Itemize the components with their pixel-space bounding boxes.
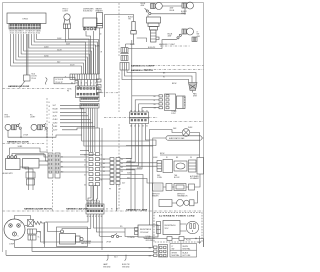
svg-text:41: 41 bbox=[84, 164, 86, 166]
junction dots rc lamps bbox=[20, 137, 21, 138]
dispenser label bbox=[83, 9, 94, 13]
rc lamp B label bbox=[30, 115, 36, 119]
svg-text:LIGHT: LIGHT bbox=[5, 117, 11, 119]
svg-text:HARNESS HCT LIGHT: HARNESS HCT LIGHT bbox=[131, 65, 155, 68]
bus verticals below J2 bbox=[82, 108, 153, 200]
inline lugs on ground wire bbox=[167, 237, 184, 241]
defrost capsule label box bbox=[166, 136, 202, 140]
svg-text:7W: 7W bbox=[128, 19, 131, 21]
svg-text:115V 60HZ: 115V 60HZ bbox=[140, 232, 148, 234]
svg-text:40: 40 bbox=[134, 110, 136, 112]
svg-text:34 40 41 33 35 36: 34 40 41 33 35 36 bbox=[86, 202, 99, 204]
svg-text:P: P bbox=[45, 130, 46, 132]
water heater cartridge bbox=[97, 13, 103, 28]
svg-text:33: 33 bbox=[142, 125, 144, 127]
wires auger connector to ladder R2 bbox=[60, 157, 89, 172]
svg-text:40W: 40W bbox=[141, 5, 145, 7]
svg-text:40: 40 bbox=[76, 83, 78, 85]
ladder R2 side labels bbox=[84, 154, 102, 186]
wires from mid connector down bbox=[126, 124, 156, 170]
svg-text:41-W: 41-W bbox=[137, 168, 141, 170]
pin wire code labels under J1 bbox=[10, 31, 42, 35]
freezer light bulb (top) bbox=[64, 14, 71, 29]
stubs bar to block bbox=[78, 80, 97, 87]
svg-text:EVAPORATOR FAN: EVAPORATOR FAN bbox=[169, 137, 185, 140]
connector column labels bbox=[154, 96, 157, 110]
svg-text:J9: J9 bbox=[119, 189, 121, 191]
svg-text:34: 34 bbox=[106, 209, 108, 211]
connector bar P1 (wide low) bbox=[70, 74, 99, 80]
water heater lead bbox=[99, 28, 101, 74]
wires from mid connector pins up to column bbox=[132, 96, 159, 112]
below ladder stubs bbox=[116, 185, 118, 212]
lamp2 side label bbox=[181, 11, 188, 15]
auger dual connector bbox=[48, 153, 60, 178]
svg-text:BULB-PK: BULB-PK bbox=[148, 47, 156, 49]
harness boundary HCT LIGHT (dash-dot right) bbox=[148, 65, 204, 67]
bulb 7W rod lamp bbox=[131, 22, 136, 43]
svg-text:40: 40 bbox=[121, 163, 123, 165]
evap fan motor bbox=[189, 83, 198, 93]
lamp3 side label bbox=[197, 32, 201, 38]
svg-text:33: 33 bbox=[85, 83, 87, 85]
connector stack P12 (right of dash line) bbox=[120, 48, 129, 71]
fan motor label bbox=[193, 93, 198, 98]
condenser fan label bbox=[81, 241, 92, 245]
svg-text:40-W: 40-W bbox=[53, 116, 57, 118]
P8 side label bbox=[67, 89, 73, 93]
below ladder labels bbox=[109, 189, 121, 191]
lamp1 label bbox=[141, 3, 146, 7]
svg-text:34: 34 bbox=[121, 159, 123, 161]
svg-text:35: 35 bbox=[84, 174, 86, 176]
svg-text:BK/W: BK/W bbox=[160, 153, 165, 155]
svg-text:LIGHT: LIGHT bbox=[63, 11, 69, 13]
harness boundary CONTROL (dash-dot right) bbox=[144, 69, 204, 71]
receptacle text bbox=[140, 228, 152, 234]
P8 pins row2 bbox=[77, 93, 98, 95]
start relay resistor zigzag bbox=[34, 221, 42, 224]
svg-text:GROUND: GROUND bbox=[122, 266, 130, 268]
svg-text:41-BU: 41-BU bbox=[53, 119, 59, 121]
svg-text:THE: THE bbox=[174, 175, 177, 177]
mid connector pins bbox=[131, 113, 146, 121]
svg-text:40: 40 bbox=[100, 34, 102, 36]
verticals below bottom connector bbox=[44, 214, 102, 250]
ground pigtail curl bbox=[46, 78, 48, 85]
wire code labels on fanout bbox=[44, 38, 76, 67]
svg-text:HARNESS LT LIGHT: HARNESS LT LIGHT bbox=[159, 43, 175, 46]
svg-text:DEFROST: DEFROST bbox=[152, 194, 160, 196]
svg-text:34-GY: 34-GY bbox=[53, 130, 59, 132]
small box pair above harness line bbox=[159, 199, 194, 206]
relay connector stack bbox=[28, 229, 37, 240]
legend connector bbox=[154, 245, 168, 258]
svg-text:CONDENSER: CONDENSER bbox=[81, 241, 92, 243]
connector stack under auger bbox=[26, 172, 35, 185]
compressor motor circle bbox=[4, 219, 25, 240]
lamp2 wiring bbox=[151, 6, 185, 14]
connector J1 strip under board bbox=[9, 24, 41, 30]
left wire-code label column bbox=[53, 105, 59, 132]
svg-text:33: 33 bbox=[142, 110, 144, 112]
svg-text:41: 41 bbox=[103, 167, 105, 169]
wire labels above heater row bbox=[153, 157, 192, 159]
svg-text:HARNESS CAB UNIT: HARNESS CAB UNIT bbox=[66, 208, 88, 211]
heater labels bbox=[157, 175, 200, 180]
cluster inline connector ladder bbox=[110, 158, 120, 185]
connector J1 pins row2 bbox=[10, 27, 40, 29]
condenser fan motor unit bbox=[60, 230, 84, 244]
svg-text:LP SW: LP SW bbox=[106, 242, 111, 244]
svg-text:BULB: BULB bbox=[170, 10, 175, 12]
rc lamp A assembly bbox=[5, 123, 21, 130]
door switch wiring bbox=[100, 228, 138, 237]
svg-text:44: 44 bbox=[38, 32, 40, 34]
bottom connector block (center) bbox=[86, 204, 104, 214]
defrost wires bbox=[150, 130, 204, 248]
svg-text:41: 41 bbox=[138, 110, 140, 112]
wire 34-Y drop bbox=[107, 255, 127, 260]
svg-text:MTR: MTR bbox=[193, 96, 198, 98]
junction dot ground bbox=[195, 238, 196, 239]
lamp housing stack bbox=[147, 17, 161, 42]
wires ladder R2 to cluster bbox=[100, 159, 111, 179]
connector block P8 (two pin rows) bbox=[76, 86, 100, 98]
harness boundary FZ DOOR (dash-dot y88.5 left) bbox=[3, 88, 67, 90]
wiring from box to plug bbox=[180, 224, 187, 231]
dispenser solenoid box bbox=[83, 18, 97, 31]
svg-text:SOLENOID: SOLENOID bbox=[83, 11, 93, 13]
center bus connector J2 lower bbox=[80, 104, 99, 109]
label row under bar bbox=[71, 83, 97, 85]
junction dots ground wires bbox=[107, 255, 108, 256]
defrost heater assembly bbox=[157, 158, 204, 175]
svg-text:RECEPTACLE: RECEPTACLE bbox=[165, 224, 177, 227]
svg-text:34: 34 bbox=[190, 157, 192, 159]
P8 pins row1 bbox=[77, 88, 98, 90]
defrost terminator row bbox=[153, 183, 195, 191]
lamp3 bulb 40W (mid right) bbox=[177, 28, 194, 39]
lamp3 connector bbox=[192, 37, 197, 42]
compressor terminal dots bbox=[10, 225, 19, 235]
door switch label bbox=[106, 242, 111, 244]
plug box lead + curl bbox=[75, 81, 80, 90]
svg-text:HOT LINE: HOT LINE bbox=[183, 255, 192, 257]
svg-text:GROUND: GROUND bbox=[103, 266, 111, 268]
svg-text:HARNESS CONTROL: HARNESS CONTROL bbox=[131, 69, 154, 72]
svg-text:GROUND: GROUND bbox=[146, 240, 154, 242]
svg-text:DEFROST: DEFROST bbox=[177, 194, 185, 196]
power plug bbox=[186, 221, 198, 233]
stack pigtails bbox=[29, 185, 34, 190]
FZ door plug label bbox=[32, 74, 38, 80]
svg-text:COMP: COMP bbox=[9, 244, 15, 246]
wire 34-BK top of auger area bbox=[10, 148, 49, 155]
svg-text:OL: OL bbox=[38, 237, 40, 239]
svg-text:P9: P9 bbox=[109, 189, 111, 191]
power cord box text bbox=[165, 224, 177, 230]
svg-text:LT: LT bbox=[197, 32, 199, 34]
svg-text:40-T: 40-T bbox=[122, 183, 125, 185]
harness boundary mid (dash-dot y117.5 center) bbox=[104, 118, 204, 122]
plug box text bbox=[56, 79, 64, 84]
svg-text:36: 36 bbox=[95, 83, 97, 85]
box pair wire bbox=[172, 191, 198, 203]
svg-text:34-RD: 34-RD bbox=[53, 123, 59, 125]
wires ladder R2 to bottom connector bbox=[88, 128, 102, 204]
svg-text:PLUG: PLUG bbox=[32, 78, 37, 80]
overload protector box bbox=[28, 220, 34, 227]
wires to FZ door connector bbox=[26, 34, 28, 75]
svg-text:AUGER MTR: AUGER MTR bbox=[3, 172, 14, 175]
svg-text:RECEPTACLE: RECEPTACLE bbox=[140, 228, 152, 231]
terminator wiring bbox=[163, 174, 200, 187]
power cord connector pins bbox=[157, 222, 161, 234]
vertical dashed harness line x119 top bbox=[118, 3, 120, 211]
fan-out wires from J1 to center bus bbox=[11, 34, 99, 74]
svg-text:HARNESS FZ LINER: HARNESS FZ LINER bbox=[126, 209, 148, 212]
wires leaving cluster right side down bbox=[120, 159, 157, 212]
compressor wiring bbox=[6, 216, 154, 256]
control board KP1B bbox=[7, 13, 46, 24]
svg-text:HARNESS AUGER MOTOR: HARNESS AUGER MOTOR bbox=[24, 208, 52, 211]
svg-text:CONT: CONT bbox=[171, 113, 176, 115]
svg-text:PLUG: PLUG bbox=[186, 240, 191, 242]
svg-text:BK W RD OR BU Y: BK W RD OR BU Y bbox=[86, 201, 101, 203]
svg-text:35: 35 bbox=[146, 110, 148, 112]
svg-text:34-T: 34-T bbox=[53, 105, 56, 107]
tiny plug symbols left edge bbox=[97, 79, 102, 93]
svg-text:FZ DOOR: FZ DOOR bbox=[56, 79, 64, 81]
wire labels along center verticals bbox=[95, 34, 103, 54]
harness boundary RC DOOR (dash-dot y143.5 left) bbox=[3, 143, 46, 145]
FZ door plug connector bbox=[20, 75, 31, 88]
compartment wiring loop bbox=[46, 222, 91, 232]
svg-text:J2: J2 bbox=[65, 77, 67, 79]
svg-text:DEF: DEF bbox=[173, 128, 176, 130]
svg-text:P8: P8 bbox=[67, 91, 69, 93]
svg-text:BK/W: BK/W bbox=[172, 83, 177, 85]
svg-text:LIGHT: LIGHT bbox=[30, 117, 36, 119]
svg-text:RD-BK: RD-BK bbox=[53, 109, 59, 111]
svg-text:BLOCK: BLOCK bbox=[174, 177, 180, 179]
alternate power cord dashed box bbox=[154, 213, 202, 243]
PTC relay label bbox=[38, 232, 42, 239]
svg-text:BULB R: BULB R bbox=[181, 11, 188, 13]
terminator labels bbox=[152, 194, 188, 198]
compressor compartment outline bbox=[57, 227, 88, 247]
svg-text:34: 34 bbox=[103, 159, 105, 161]
svg-text:41: 41 bbox=[121, 167, 123, 169]
letter column along left dashed line bbox=[45, 102, 51, 132]
cluster side labels bbox=[103, 159, 123, 173]
svg-text:33: 33 bbox=[121, 171, 123, 173]
defrost bimetal DEF bbox=[182, 129, 190, 137]
svg-text:NEUTRAL: NEUTRAL bbox=[183, 247, 191, 250]
short harness dash-dot y92 bbox=[96, 92, 119, 94]
svg-text:41: 41 bbox=[138, 125, 140, 127]
border frame bbox=[3, 3, 204, 253]
svg-text:40: 40 bbox=[134, 125, 136, 127]
lamp1 switch + bulb 40W (top) bbox=[145, 3, 163, 15]
bulb 7W label bbox=[128, 17, 133, 21]
svg-text:S: S bbox=[7, 223, 8, 225]
svg-text:ALTERNATE POWER CORD: ALTERNATE POWER CORD bbox=[159, 215, 195, 218]
freezer light leads bbox=[66, 29, 90, 75]
svg-text:HARNESS RC DOOR: HARNESS RC DOOR bbox=[7, 141, 29, 144]
svg-text:40-W: 40-W bbox=[66, 43, 70, 45]
wire labels near bundle bbox=[163, 72, 177, 85]
stack lead from switch bbox=[147, 15, 149, 17]
thermostat box bbox=[177, 96, 186, 109]
mid harness connector (dual row) bbox=[130, 112, 149, 124]
small labels above FZ liner line bbox=[106, 209, 119, 211]
svg-text:35: 35 bbox=[146, 125, 148, 127]
harness boundary bottom y211 full width bbox=[3, 210, 204, 212]
inline connector ladder R2 (center) bbox=[89, 153, 100, 186]
connector column (right mid) bbox=[159, 94, 176, 111]
svg-text:DEF: DEF bbox=[157, 175, 160, 177]
bottom connector pins bbox=[87, 205, 103, 212]
rc lamp B assembly bbox=[31, 123, 47, 130]
evap plug label box bbox=[54, 77, 75, 84]
receptacle left pins bbox=[135, 228, 139, 235]
auger motor bbox=[6, 156, 21, 170]
svg-text:LT SW: LT SW bbox=[23, 135, 28, 137]
legend text bbox=[172, 246, 192, 257]
lamp2 label bbox=[170, 8, 175, 12]
svg-text:SW: SW bbox=[172, 248, 175, 250]
rc lamp A label bbox=[5, 115, 11, 119]
auger area wiring bbox=[12, 154, 48, 173]
legend table bbox=[170, 244, 197, 258]
svg-text:PLUG 2P: PLUG 2P bbox=[56, 82, 64, 84]
ground wire row y238 bbox=[144, 237, 204, 247]
svg-text:34: 34 bbox=[71, 83, 73, 85]
svg-text:B: B bbox=[49, 102, 50, 104]
bottom ground labels bbox=[103, 263, 130, 268]
svg-text:34: 34 bbox=[130, 110, 132, 112]
J2 upper pins bbox=[81, 98, 98, 99]
junction dot lamp2 bbox=[184, 13, 185, 14]
svg-text:TO SW BK: TO SW BK bbox=[127, 237, 136, 239]
rod feed wire to left bbox=[105, 15, 134, 98]
rc lamp wiring bbox=[8, 129, 82, 137]
lamp2 bulb 40W (top right) bbox=[182, 2, 194, 9]
water heater label bbox=[96, 8, 104, 13]
svg-text:34-OR: 34-OR bbox=[53, 112, 59, 114]
svg-text:HEATER: HEATER bbox=[96, 10, 104, 13]
labels above mid connector bbox=[130, 110, 148, 127]
svg-text:40: 40 bbox=[103, 163, 105, 165]
power cord receptacle box bbox=[163, 221, 180, 235]
connector J1 pins row1 bbox=[10, 24, 40, 26]
legend connector labels bbox=[149, 248, 152, 258]
door switch bottom bbox=[111, 234, 118, 238]
harness boundary lamp (dash-dot y46 right) bbox=[160, 45, 190, 47]
center bus connector J2 upper bbox=[80, 97, 99, 102]
svg-text:40: 40 bbox=[84, 159, 86, 161]
svg-text:NEUTRAL: NEUTRAL bbox=[172, 254, 180, 257]
stub wires from label column to bus bbox=[60, 105, 97, 130]
dispenser leads bbox=[86, 31, 94, 74]
crusher solenoid box bbox=[23, 159, 40, 169]
svg-text:BK RD: BK RD bbox=[146, 238, 152, 240]
labels under bottom connector bbox=[87, 216, 103, 218]
svg-text:33: 33 bbox=[103, 171, 105, 173]
wire labels right of cluster bbox=[122, 161, 141, 185]
extra fabric wires left of ladder bbox=[80, 151, 96, 155]
receptacle box bbox=[138, 225, 158, 237]
svg-text:HARNESS FZ DOOR: HARNESS FZ DOOR bbox=[8, 85, 30, 88]
lamp3 label bbox=[168, 34, 173, 38]
lamp3 wire bbox=[126, 38, 177, 49]
labels above bottom connector bbox=[86, 201, 101, 205]
vertical dashed harness lines x47 x53 bbox=[47, 98, 53, 211]
wire bundle to icemaker fan bbox=[122, 40, 196, 96]
svg-text:40W: 40W bbox=[181, 13, 185, 15]
freezer light label bbox=[63, 9, 70, 13]
svg-text:40W: 40W bbox=[168, 36, 172, 38]
labels right of auger connector bbox=[61, 157, 64, 174]
ground arrow right bbox=[198, 236, 200, 244]
svg-text:KP1B: KP1B bbox=[23, 19, 29, 21]
thermostat label bbox=[171, 110, 177, 115]
svg-text:36: 36 bbox=[84, 184, 86, 186]
J2 lower pins bbox=[81, 105, 98, 106]
